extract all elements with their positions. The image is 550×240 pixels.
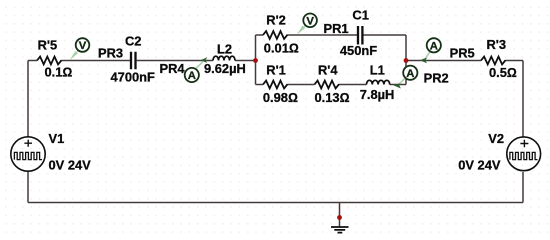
source V1 circle [11,137,45,171]
wire: R3 to right corner [506,60,524,62]
svg-text:C2: C2 [125,34,141,49]
wire: top branch left lead to R2 [256,34,264,36]
resistor R2 zigzag [263,31,288,39]
svg-text:4700nF: 4700nF [111,70,156,85]
wire: parallel block left vertical (255.5,35)-(255.5,84.5) [255,35,257,85]
capacitor C2 plates [131,52,136,70]
wire: R4 to L1 [339,84,367,86]
source V2 circle [507,137,541,171]
svg-text:V2: V2 [488,131,504,146]
wire: C2 right plate to L2 [137,60,213,62]
probe PR4 circle A [185,68,199,82]
svg-text:450nF: 450nF [340,43,377,58]
svg-text:0.01Ω: 0.01Ω [264,40,299,55]
svg-text:C1: C1 [352,8,368,23]
svg-text:V: V [306,15,314,27]
wire: right vertical bottom (523,172)-(523,202.5) [522,172,524,203]
svg-text:PR3: PR3 [98,46,123,61]
node junction dot left (255.5,60.5) [253,58,258,63]
wire: C1 right plate to right vertical [363,34,406,36]
svg-text:V: V [79,40,87,52]
node junction dot ground (339.5,217.5) [337,215,342,220]
probe PR2 circle A [403,66,417,80]
resistor R4 zigzag [315,81,340,89]
svg-text:0V 24V: 0V 24V [458,157,501,172]
probe PR5 arrow [420,57,428,63]
wire: left vertical top (28,60.5)-(28,136.5) [27,61,29,137]
svg-text:V1: V1 [49,131,65,146]
wire: L1 to right vertical [390,84,406,86]
resistor R1 zigzag [263,81,288,89]
svg-text:0.5Ω: 0.5Ω [489,65,517,80]
svg-text:L1: L1 [370,62,385,77]
resistor R3 zigzag [481,57,506,65]
wire: bottom horizontal (28,202.5)-(523,202.5) [28,202,523,204]
probe PR4 arrow [200,57,207,63]
svg-text:PR4: PR4 [160,61,186,76]
svg-text:L2: L2 [217,42,232,57]
wire: parallel block right vertical (406,35)-(406,84.5) [405,35,407,85]
probe PR1 circle V [303,13,317,27]
inductor L2 bumps [213,56,235,60]
svg-text:0.13Ω: 0.13Ω [315,90,350,105]
probe PR2 arrow [394,83,402,89]
wire: L2 to node A [235,60,256,62]
svg-text:9.62µH: 9.62µH [204,61,246,76]
source V2 plus sign [520,140,528,148]
svg-text:R'2: R'2 [266,13,286,28]
svg-text:R'3: R'3 [487,37,507,52]
wire: left vertical bottom (28,172)-(28,202.5) [27,172,29,203]
probe PR5 circle A [427,38,441,52]
inductor L1 bumps [367,80,390,84]
wire: R5 to C2 left plate [62,60,130,62]
svg-text:A: A [188,70,196,82]
svg-text:R'5: R'5 [38,37,58,52]
svg-text:7.8µH: 7.8µH [360,87,395,102]
probe PR3 arrow [70,51,78,60]
svg-text:0.1Ω: 0.1Ω [45,65,73,80]
source V1 square wave [14,152,42,159]
svg-text:0.98Ω: 0.98Ω [263,90,298,105]
probe PR3 circle V [76,38,90,52]
wire: bottom branch left lead to R1 [256,84,264,86]
svg-text:PR1: PR1 [324,21,349,36]
resistor R5 zigzag [37,57,61,65]
source V2 square wave [510,152,538,159]
svg-text:A: A [430,40,438,52]
svg-text:A: A [406,68,414,80]
probe PR1 arrow [297,26,305,35]
svg-text:0V 24V: 0V 24V [49,157,92,172]
wire: top-left horizontal segment V1 corner to R5 [28,60,37,62]
svg-text:R'4: R'4 [318,62,338,77]
wire: node B to R3 [406,60,481,62]
node junction dot right (406,60.5) [404,58,409,63]
wire: R1 to R4 [288,84,315,86]
svg-text:R'1: R'1 [266,62,286,77]
capacitor C1 plates [358,26,362,45]
ground symbol [331,227,349,233]
wire: right vertical top (523,60.5)-(523,136.5) [522,61,524,137]
svg-text:PR5: PR5 [450,46,475,61]
wire: ground stub (339.5,202.5)-(339.5,226.5) [339,203,341,227]
source V1 plus sign [24,140,32,147]
svg-text:PR2: PR2 [424,71,449,86]
wire: R2 to C1 left plate [288,34,358,36]
